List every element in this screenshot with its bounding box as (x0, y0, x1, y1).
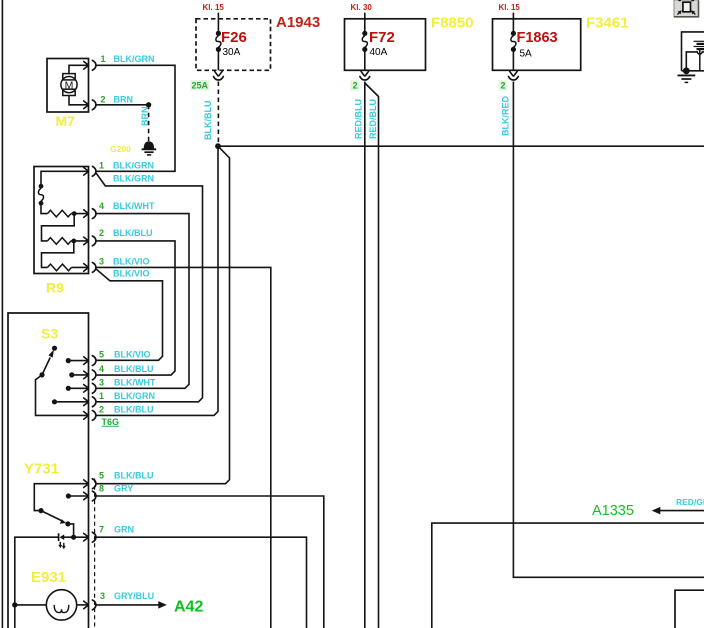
icon fit-view button (674, 0, 699, 17)
svg-text:E931: E931 (31, 569, 66, 586)
connector boundary dashed line (94, 479, 96, 628)
svg-text:F26: F26 (221, 29, 247, 46)
svg-text:GRY/BLU: GRY/BLU (114, 591, 154, 601)
svg-text:BLK/VIO: BLK/VIO (113, 268, 150, 278)
wire BRN dashed to ground (148, 105, 150, 142)
svg-text:BLK/GRN: BLK/GRN (114, 54, 155, 64)
svg-text:BLK/VIO: BLK/VIO (113, 256, 150, 266)
valve switch Y731 (34, 479, 96, 542)
svg-text:BRN: BRN (140, 107, 150, 127)
svg-text:5: 5 (99, 350, 104, 360)
svg-text:GRN: GRN (114, 525, 134, 535)
svg-text:2: 2 (99, 228, 104, 238)
R9 pin3 labels (99, 256, 150, 266)
wire GRY/BLU to A42 (96, 604, 159, 606)
svg-text:7: 7 (99, 525, 104, 535)
svg-text:1: 1 (99, 391, 104, 401)
wire BLK/GRN R9 pin1 to S3 pin1 (96, 173, 203, 402)
svg-text:2: 2 (99, 404, 104, 414)
power distribution box partial (682, 32, 704, 71)
wire lower bus to right edge (432, 523, 704, 628)
S3 pin3 labels (99, 377, 156, 387)
svg-text:2: 2 (101, 95, 106, 105)
svg-text:S3: S3 (41, 326, 58, 342)
svg-text:2: 2 (353, 81, 358, 91)
connector below F72 (361, 71, 369, 76)
svg-text:1: 1 (99, 161, 104, 171)
wire BLK/BLU R9 pin2 to S3 pin4 (96, 241, 175, 375)
connector below F26 (215, 71, 223, 76)
wire Kl.30 stub F72 (364, 13, 366, 19)
svg-text:Kl. 15: Kl. 15 (203, 3, 225, 12)
wire BLK/BLU dashed F26 to junction (217, 82, 219, 144)
Y731 pin5 labels (99, 471, 154, 481)
fuse carrier F8850 box (345, 19, 426, 71)
svg-text:3: 3 (99, 256, 104, 266)
svg-text:BLK/WHT: BLK/WHT (113, 201, 155, 211)
wire BRN M7 pin2 (96, 104, 149, 106)
pin 1 label BLK/GRN (101, 54, 155, 64)
wire GRN Y731 pin7 down page (96, 537, 307, 628)
svg-text:BLK/BLU: BLK/BLU (113, 228, 153, 238)
svg-text:R9: R9 (46, 280, 64, 296)
wire Kl.15 stub F26 (217, 13, 219, 19)
S3 pin4 labels (99, 364, 154, 374)
svg-text:Y731: Y731 (24, 461, 59, 478)
svg-text:BLK/WHT: BLK/WHT (114, 377, 156, 387)
svg-text:M: M (65, 80, 74, 92)
R9 pin2 labels (99, 228, 153, 238)
svg-text:F1863: F1863 (517, 30, 558, 46)
svg-text:BLK/BLU: BLK/BLU (203, 101, 213, 141)
label 2 link (350, 81, 359, 91)
wire BLK/RED down and right (513, 82, 704, 578)
svg-text:BLK/BLU: BLK/BLU (114, 364, 154, 374)
fuse carrier A1943 dashed box (196, 19, 271, 71)
connector below F1863 (510, 71, 518, 76)
wire RED/BLU 1 down (364, 82, 366, 628)
motor M7 (47, 59, 96, 113)
svg-text:BLK/VIO: BLK/VIO (114, 350, 151, 360)
svg-text:T6G: T6G (102, 417, 120, 427)
label 25A link (190, 80, 209, 91)
svg-text:F72: F72 (369, 29, 395, 46)
svg-text:BLK/BLU: BLK/BLU (114, 404, 154, 414)
svg-text:BLK/GRN: BLK/GRN (113, 161, 154, 171)
svg-text:BRN: BRN (114, 95, 134, 105)
svg-text:RED/BLU: RED/BLU (368, 99, 378, 139)
svg-text:BLK/GRN: BLK/GRN (114, 391, 155, 401)
node ground dot (683, 67, 690, 74)
wire BLK/VIO R9 pin3 down page (96, 267, 271, 628)
S3 pin1 labels (99, 391, 155, 401)
fuse F26 (216, 19, 221, 71)
wire GRY Y731 pin8 down page (96, 496, 324, 628)
svg-text:3: 3 (99, 377, 104, 387)
wire GRN Y731 LED to E931 junction (15, 537, 59, 628)
wire BLK/WHT R9 pin4 to S3 pin3 (96, 214, 189, 389)
wire junction to S3 pin2 (96, 146, 218, 415)
svg-text:A42: A42 (174, 599, 203, 616)
wire main horizontal bus (218, 145, 704, 147)
svg-text:F8850: F8850 (431, 15, 474, 32)
switch S3 (36, 346, 96, 421)
svg-text:BLK/BLU: BLK/BLU (114, 471, 154, 481)
svg-text:4: 4 (99, 364, 104, 374)
lamp E931 (15, 590, 96, 620)
svg-text:Kl. 30: Kl. 30 (351, 3, 373, 12)
svg-text:A1335: A1335 (592, 503, 634, 519)
control unit box (8, 313, 89, 628)
wire battery negative drop (699, 49, 701, 71)
wire RED/BLU 2 down (365, 83, 379, 628)
svg-text:BLK/GRN: BLK/GRN (113, 174, 154, 184)
svg-text:A1943: A1943 (276, 14, 320, 31)
svg-text:3: 3 (100, 591, 105, 601)
node BLK/BLU junction (215, 143, 221, 149)
svg-text:RED/BLU: RED/BLU (354, 99, 364, 139)
wire left border line (1, 0, 3, 628)
svg-text:F3461: F3461 (586, 15, 629, 32)
fuse F1863 (511, 19, 516, 71)
svg-text:RED/GRN: RED/GRN (676, 497, 704, 507)
R9 pin1 labels (99, 161, 154, 171)
battery G1 plates (694, 41, 704, 49)
svg-text:1: 1 (101, 54, 106, 64)
wire junction to Y731 pin5 (96, 146, 230, 484)
svg-text:8: 8 (99, 484, 104, 494)
wire A1335 from right edge (660, 510, 704, 512)
E931 pin3 labels (100, 591, 154, 601)
svg-text:BLK/RED: BLK/RED (501, 96, 511, 136)
wire Kl.15 stub F1863 (512, 13, 514, 19)
svg-text:Kl. 15: Kl. 15 (499, 3, 521, 12)
ground G200 (142, 141, 157, 155)
svg-text:5A: 5A (520, 48, 533, 59)
S3 pin5 labels (99, 350, 151, 360)
ground symbol power box (678, 75, 696, 82)
fuse F72 (362, 19, 367, 71)
svg-text:GRY: GRY (114, 484, 133, 494)
svg-text:5: 5 (99, 471, 104, 481)
wire battery to ground with hop (686, 52, 704, 68)
Y731 pin8 labels (99, 484, 133, 494)
svg-text:40A: 40A (370, 47, 388, 58)
LED in Y731 (58, 533, 88, 549)
svg-text:G200: G200 (110, 144, 131, 154)
svg-text:2: 2 (501, 81, 506, 91)
svg-text:4: 4 (99, 201, 104, 211)
svg-text:M7: M7 (56, 113, 76, 129)
component box bottom right partial (675, 590, 704, 628)
svg-text:30A: 30A (223, 47, 241, 58)
Y731 pin7 labels (99, 525, 134, 535)
pin 2 label BRN (101, 95, 134, 105)
svg-text:25A: 25A (192, 81, 209, 91)
label 2 link second (498, 81, 507, 91)
S3 pin2 labels (99, 404, 154, 414)
R9 pin4 labels (99, 201, 155, 211)
node BRN junction (146, 102, 151, 107)
wire BLK/VIO R9 pin3 to S3 pin5 (96, 269, 163, 360)
fuse carrier F3461 box (493, 19, 581, 71)
node E931 junction (12, 602, 17, 607)
wire BLK/GRN M7 pin1 to R9 pin1 (96, 65, 175, 171)
resistor pack R9 (34, 167, 89, 274)
R9 internals (38, 166, 95, 272)
